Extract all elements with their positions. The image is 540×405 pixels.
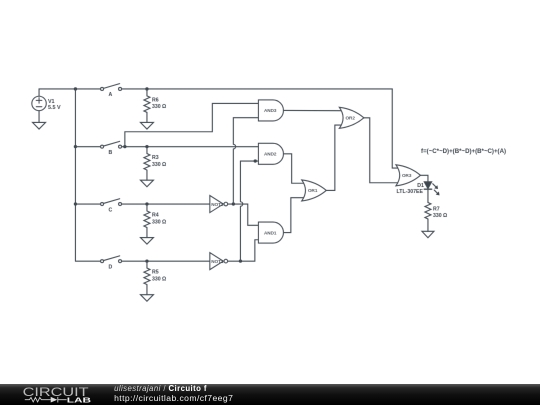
or gate OR2 xyxy=(339,107,364,128)
wire NOT1 out to AND1 bottom xyxy=(228,240,259,261)
node AND2 bottom input dot xyxy=(254,159,257,162)
wire row C to NOT2 xyxy=(122,203,210,205)
wire OR2 out to OR3 bottom xyxy=(364,118,398,183)
node NOT2-out junction xyxy=(232,202,235,205)
logo resistor-diode motif xyxy=(25,397,67,403)
resistor R6 xyxy=(144,89,166,123)
switch D xyxy=(101,256,122,271)
wire vertical bus xyxy=(74,89,76,261)
wire V1 top to switch A xyxy=(39,89,100,96)
voltage source V1 xyxy=(32,96,61,111)
node NOT1-out junction xyxy=(239,260,242,263)
switch A xyxy=(101,84,122,99)
node bus-C junction xyxy=(74,202,77,205)
wire bus to switch B xyxy=(75,146,100,148)
ground under R5 xyxy=(140,295,153,302)
and gate AND1 xyxy=(258,222,283,243)
wire OR3 out to LED xyxy=(420,175,428,182)
wire notD vertical to AND2 bottom with hop over NOT2 out xyxy=(240,161,258,261)
svg-text:LAB: LAB xyxy=(67,395,91,404)
wire bus to switch D xyxy=(75,260,100,262)
ground under R4 xyxy=(140,238,153,245)
wire row A xyxy=(122,88,393,90)
wire B branch to AND3 top xyxy=(125,103,259,146)
ground under R3 xyxy=(140,180,153,187)
not gate NOT2 xyxy=(210,196,228,213)
node rowD-R5 junction xyxy=(145,260,148,263)
wire bus to switch C xyxy=(75,203,100,205)
resistor R4 xyxy=(144,204,166,238)
wire V1 to ground xyxy=(38,111,40,123)
or gate OR3 xyxy=(396,165,421,186)
wire OR1 out to OR2 bottom xyxy=(326,125,341,190)
node bus-top junction xyxy=(74,87,77,90)
ground under V1 xyxy=(33,122,46,129)
node rowB-R3 junction xyxy=(145,145,148,148)
wire row D to NOT1 xyxy=(122,260,210,262)
wire LED to R7 xyxy=(427,189,429,202)
node rowC-R4 junction xyxy=(145,202,148,205)
wire AND1 out to OR1 bottom xyxy=(283,198,304,233)
ground under R6 xyxy=(140,122,153,129)
and gate AND3 xyxy=(258,100,283,121)
node rowA-R6 junction xyxy=(145,87,148,90)
svg-text:http://circuitlab.com/cf7eeg7: http://circuitlab.com/cf7eeg7 xyxy=(114,393,233,403)
footer bar xyxy=(0,384,540,405)
wire NOT2 out to AND1 top xyxy=(228,204,259,225)
wire AND2 out to OR1 top xyxy=(283,154,304,183)
wire notC vertical to AND3 bottom with hop over row B xyxy=(233,118,258,204)
wire AND3 out to OR2 top xyxy=(283,109,341,111)
and gate AND2 xyxy=(258,143,283,164)
ground under R7 xyxy=(422,231,434,237)
switch B xyxy=(101,141,122,156)
resistor R5 xyxy=(144,261,166,295)
node bus-B junction xyxy=(74,145,77,148)
or gate OR1 xyxy=(302,180,327,201)
node formula text xyxy=(421,148,506,155)
switch C xyxy=(101,199,122,214)
node rowB-branch junction xyxy=(123,145,126,148)
led D1 xyxy=(397,182,440,196)
not gate NOT1 xyxy=(210,253,228,270)
wire A riser down to OR3 xyxy=(392,89,398,168)
svg-text:ulisestrajani / Circuito f: ulisestrajani / Circuito f xyxy=(114,384,207,393)
resistor R7 xyxy=(425,202,447,231)
resistor R3 xyxy=(144,147,166,181)
wire row B to AND2 top xyxy=(122,146,259,148)
